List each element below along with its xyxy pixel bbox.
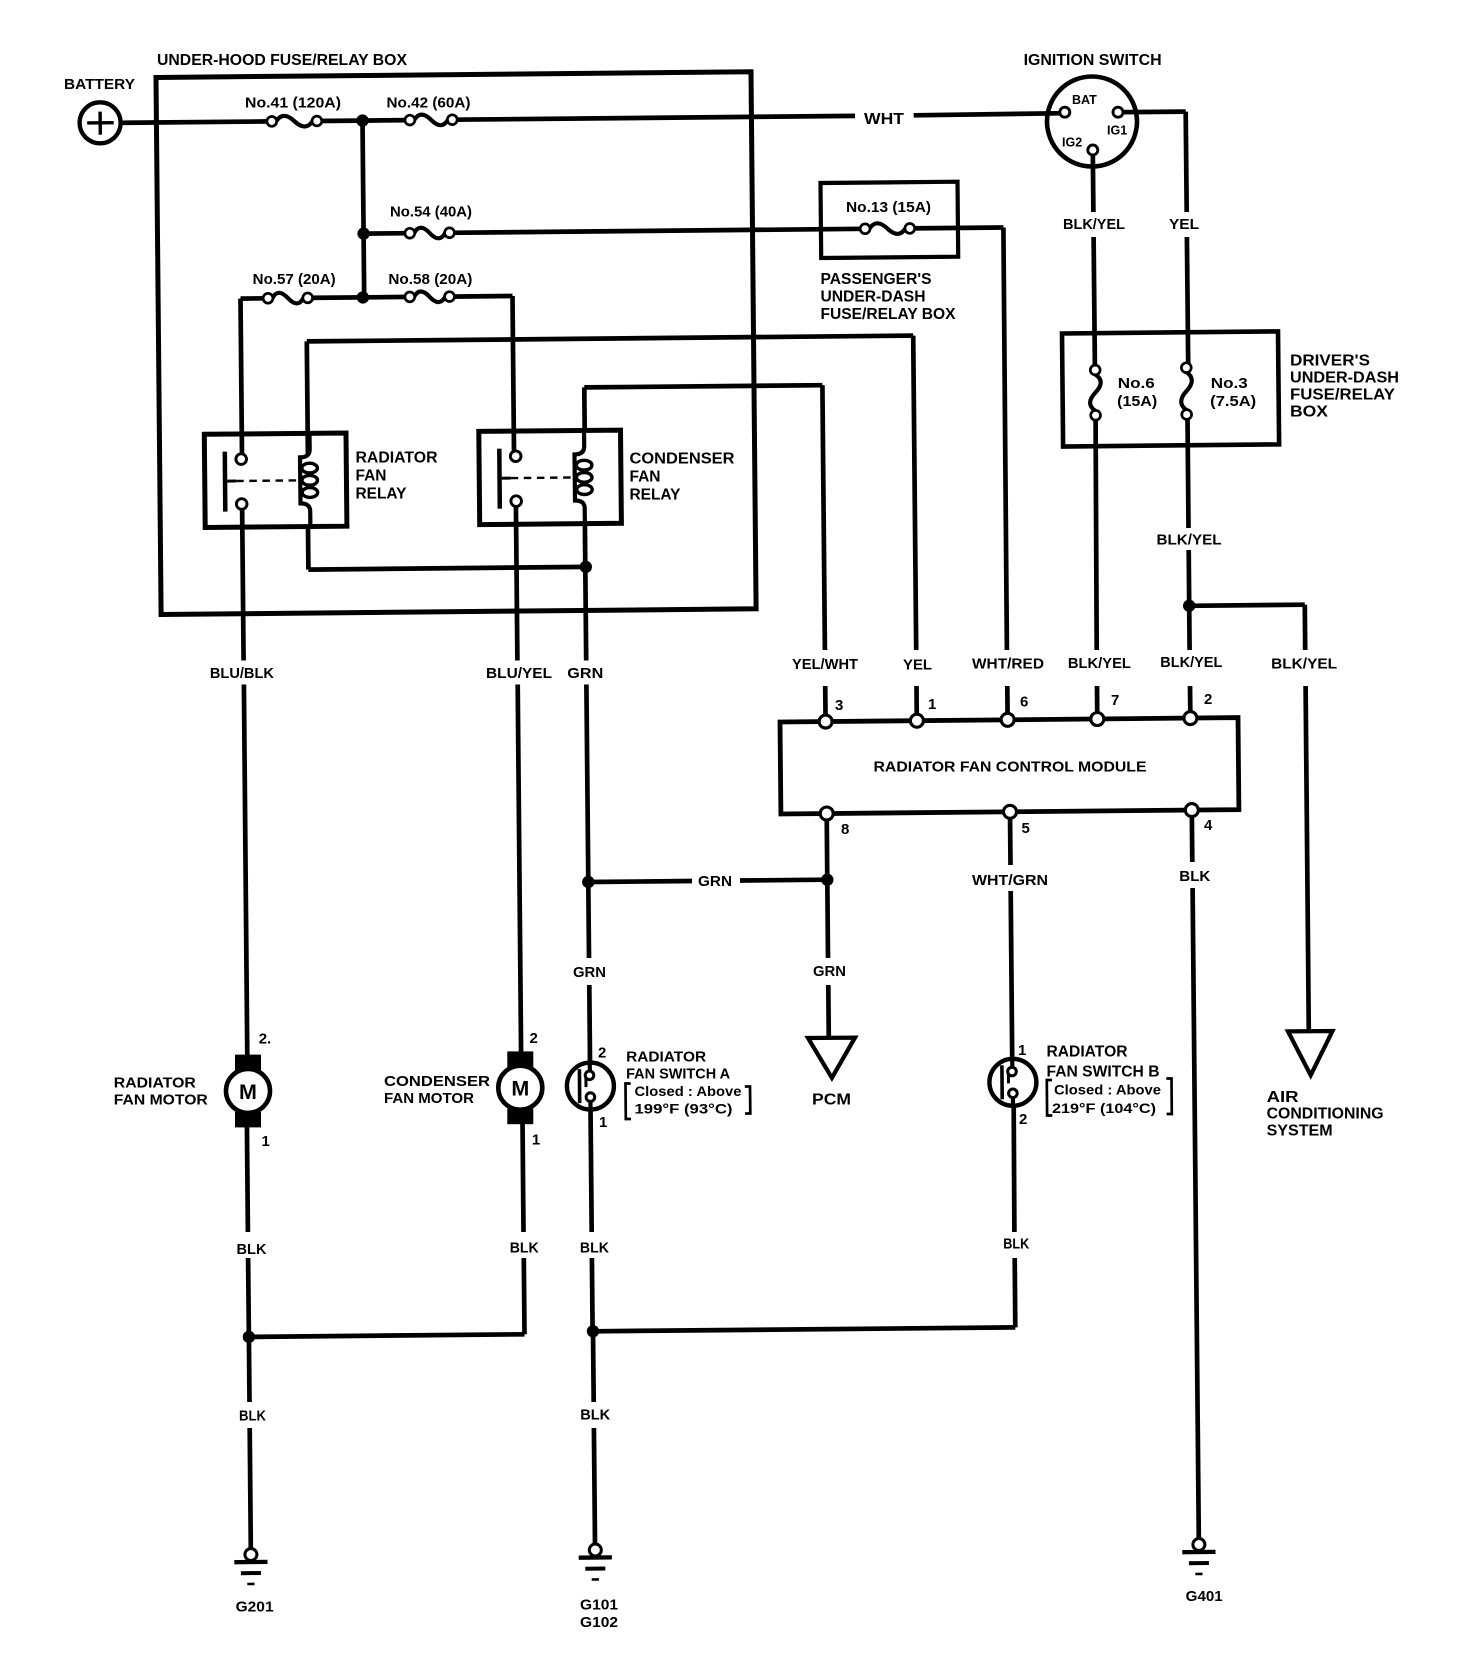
svg-text:2: 2	[1204, 691, 1212, 708]
svg-text:(15A): (15A)	[1117, 393, 1157, 410]
svg-text:BAT: BAT	[1072, 93, 1097, 107]
svg-text:2: 2	[530, 1030, 538, 1047]
svg-text:FUSE/RELAY: FUSE/RELAY	[1290, 387, 1396, 404]
svg-text:RELAY: RELAY	[630, 487, 682, 504]
svg-text:RADIATOR: RADIATOR	[114, 1075, 196, 1092]
svg-text:IG2: IG2	[1062, 136, 1082, 150]
svg-text:BLK/YEL: BLK/YEL	[1063, 216, 1125, 233]
svg-text:FUSE/RELAY BOX: FUSE/RELAY BOX	[821, 306, 957, 323]
svg-text:8: 8	[841, 821, 849, 838]
svg-text:FAN MOTOR: FAN MOTOR	[384, 1090, 474, 1107]
svg-text:BLK/YEL: BLK/YEL	[1068, 655, 1131, 672]
svg-text:FAN SWITCH B: FAN SWITCH B	[1047, 1064, 1160, 1081]
svg-text:GRN: GRN	[573, 964, 606, 981]
svg-text:G101: G101	[580, 1597, 618, 1614]
svg-text:BLU/YEL: BLU/YEL	[486, 665, 552, 682]
svg-text:BLK: BLK	[239, 1408, 266, 1425]
svg-text:BLK: BLK	[237, 1241, 267, 1258]
svg-text:BLK: BLK	[580, 1407, 610, 1424]
svg-text:RADIATOR: RADIATOR	[356, 450, 438, 467]
svg-text:No.13 (15A): No.13 (15A)	[846, 199, 931, 216]
svg-text:SYSTEM: SYSTEM	[1267, 1123, 1333, 1140]
svg-text:BOX: BOX	[1290, 404, 1329, 421]
svg-text:UNDER-DASH: UNDER-DASH	[821, 289, 926, 306]
svg-text:FAN: FAN	[356, 468, 387, 485]
svg-text:CONDITIONING: CONDITIONING	[1267, 1106, 1384, 1123]
svg-text:No.6: No.6	[1118, 375, 1155, 392]
svg-text:M: M	[511, 1077, 529, 1101]
svg-text:2: 2	[1019, 1111, 1027, 1128]
svg-text:1: 1	[1018, 1042, 1026, 1059]
svg-text:UNDER-DASH: UNDER-DASH	[1290, 370, 1399, 387]
svg-text:RADIATOR: RADIATOR	[1047, 1044, 1128, 1061]
svg-text:BLK/YEL: BLK/YEL	[1157, 532, 1222, 549]
svg-text:5: 5	[1022, 820, 1030, 837]
svg-text:WHT: WHT	[864, 111, 905, 128]
svg-text:BLU/BLK: BLU/BLK	[210, 665, 274, 682]
svg-text:No.57 (20A): No.57 (20A)	[253, 271, 336, 288]
svg-text:6: 6	[1020, 694, 1028, 711]
svg-text:(7.5A): (7.5A)	[1210, 393, 1256, 410]
svg-text:CONDENSER: CONDENSER	[630, 451, 735, 468]
svg-text:G401: G401	[1186, 1588, 1223, 1605]
svg-text:1: 1	[262, 1133, 270, 1150]
svg-text:GRN: GRN	[698, 873, 732, 890]
svg-text:199°F (93°C): 199°F (93°C)	[635, 1101, 733, 1117]
svg-text:FAN: FAN	[630, 469, 661, 486]
svg-text:RELAY: RELAY	[356, 486, 408, 503]
svg-text:219°F (104°C): 219°F (104°C)	[1052, 1100, 1156, 1116]
svg-text:RADIATOR: RADIATOR	[626, 1049, 706, 1066]
svg-text:IG1: IG1	[1107, 124, 1127, 138]
svg-text:M: M	[239, 1080, 257, 1104]
svg-text:BLK: BLK	[510, 1240, 539, 1257]
svg-text:WHT/RED: WHT/RED	[972, 656, 1044, 673]
svg-text:No.58 (20A): No.58 (20A)	[388, 271, 472, 288]
svg-text:YEL: YEL	[903, 657, 932, 674]
svg-text:4: 4	[1204, 817, 1213, 834]
svg-text:1: 1	[928, 696, 936, 713]
svg-text:BLK/YEL: BLK/YEL	[1271, 656, 1337, 673]
svg-text:GRN: GRN	[567, 665, 603, 682]
svg-text:No.41 (120A): No.41 (120A)	[245, 95, 341, 112]
svg-text:7: 7	[1111, 692, 1119, 709]
svg-text:BATTERY: BATTERY	[64, 76, 135, 93]
svg-text:1: 1	[532, 1132, 540, 1149]
svg-text:FAN SWITCH A: FAN SWITCH A	[626, 1066, 730, 1083]
svg-text:No.42 (60A): No.42 (60A)	[387, 95, 471, 112]
svg-text:No.3: No.3	[1211, 375, 1248, 392]
svg-text:G201: G201	[236, 1599, 274, 1616]
svg-text:Closed : Above: Closed : Above	[635, 1083, 742, 1099]
svg-text:DRIVER'S: DRIVER'S	[1290, 353, 1370, 370]
svg-text:YEL/WHT: YEL/WHT	[792, 656, 858, 673]
svg-text:WHT/GRN: WHT/GRN	[972, 872, 1048, 889]
svg-text:BLK: BLK	[1003, 1236, 1029, 1253]
svg-text:3: 3	[835, 697, 843, 714]
svg-text:Closed : Above: Closed : Above	[1054, 1082, 1161, 1098]
svg-text:YEL: YEL	[1169, 216, 1199, 233]
svg-text:2.: 2.	[259, 1031, 272, 1048]
svg-text:FAN MOTOR: FAN MOTOR	[114, 1092, 208, 1109]
svg-text:G102: G102	[580, 1614, 618, 1631]
svg-text:PASSENGER'S: PASSENGER'S	[821, 271, 932, 288]
svg-text:BLK/YEL: BLK/YEL	[1160, 654, 1222, 671]
svg-text:CONDENSER: CONDENSER	[384, 1073, 490, 1090]
svg-text:IGNITION SWITCH: IGNITION SWITCH	[1024, 52, 1162, 69]
svg-text:BLK: BLK	[1179, 868, 1210, 885]
svg-text:GRN: GRN	[813, 963, 846, 980]
svg-text:BLK: BLK	[580, 1240, 609, 1257]
svg-text:RADIATOR FAN CONTROL MODULE: RADIATOR FAN CONTROL MODULE	[874, 759, 1147, 776]
svg-text:2: 2	[598, 1045, 606, 1062]
svg-text:No.54 (40A): No.54 (40A)	[390, 204, 472, 221]
svg-text:1: 1	[599, 1114, 607, 1131]
svg-text:AIR: AIR	[1267, 1089, 1299, 1106]
svg-text:PCM: PCM	[812, 1092, 851, 1109]
svg-text:UNDER-HOOD FUSE/RELAY BOX: UNDER-HOOD FUSE/RELAY BOX	[157, 52, 408, 69]
